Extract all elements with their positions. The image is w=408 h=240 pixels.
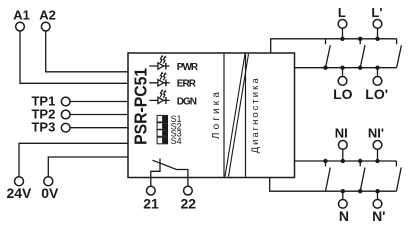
svg-text:PSR-PC51: PSR-PC51 <box>131 68 151 145</box>
terminal 22 <box>184 186 193 195</box>
contact K2c <box>396 161 401 191</box>
svg-text:NI': NI' <box>368 126 384 141</box>
LED PWR <box>149 55 169 70</box>
divider logic column <box>223 54 225 177</box>
svg-text:N': N' <box>372 208 385 224</box>
junction dots LO bus <box>323 66 327 70</box>
wire TP3 <box>70 127 128 129</box>
svg-text:Диагностика: Диагностика <box>250 76 261 153</box>
wire NI stub <box>342 149 344 161</box>
terminal N' <box>373 199 382 208</box>
terminal 24V <box>15 177 24 186</box>
contact K2a <box>326 161 331 191</box>
svg-text:LO: LO <box>333 86 353 102</box>
wire LO stub <box>342 68 344 77</box>
terminal 0V <box>44 177 53 186</box>
LED DGN <box>149 89 169 104</box>
svg-text:0V: 0V <box>41 185 59 201</box>
switch S1 <box>157 115 167 122</box>
svg-text:ERR: ERR <box>177 79 197 90</box>
svg-text:22: 22 <box>181 195 197 211</box>
wire N stub <box>342 191 344 199</box>
junction dots NI bus <box>323 159 327 163</box>
junction dots N bus <box>341 189 345 193</box>
switch S2 <box>157 123 167 130</box>
contact K1a <box>326 39 331 68</box>
wire L bus top <box>271 39 397 53</box>
switch S4 <box>157 137 167 144</box>
terminal 21 <box>146 186 155 195</box>
wire 0V to module <box>48 157 128 177</box>
svg-text:A1: A1 <box>13 8 30 23</box>
wire N' stub <box>377 191 379 199</box>
svg-text:Логика: Логика <box>211 89 222 139</box>
svg-text:NI: NI <box>335 126 348 141</box>
contact K2b <box>360 161 365 191</box>
contact K1c <box>397 39 402 68</box>
contact K1b <box>360 39 365 68</box>
svg-text:24V: 24V <box>6 185 32 201</box>
wire TP1 <box>70 101 128 103</box>
relay output contact 21-22 <box>151 159 188 187</box>
wire 24V to module <box>19 143 128 176</box>
terminal N <box>338 199 347 208</box>
LED ERR <box>149 71 169 86</box>
wire A2 to module <box>46 31 128 72</box>
svg-text:S4: S4 <box>171 136 182 146</box>
wire L' stub <box>377 28 379 39</box>
wire LO' stub <box>377 68 379 77</box>
wire TP2 <box>70 114 128 116</box>
divider diagnostics column <box>245 54 247 177</box>
wire NI' stub <box>377 149 379 161</box>
junction dots L bus <box>340 37 344 41</box>
wire NI bus <box>295 160 397 162</box>
svg-text:L: L <box>338 5 346 20</box>
wire L stub <box>342 28 344 39</box>
svg-text:PWR: PWR <box>177 62 199 73</box>
wire A1 to module <box>20 31 128 83</box>
isolation barrier diagonal 2 <box>229 54 249 177</box>
wire LO bus <box>295 67 397 69</box>
switch S3 <box>157 130 167 137</box>
svg-text:A2: A2 <box>39 8 56 23</box>
module box U1 PSR-PC51 <box>128 53 295 178</box>
svg-text:L': L' <box>371 5 382 20</box>
svg-text:21: 21 <box>143 195 159 211</box>
terminal LO' <box>373 77 382 86</box>
svg-text:LO': LO' <box>365 86 388 102</box>
wire N bus <box>270 178 397 192</box>
terminal LO <box>338 77 347 86</box>
svg-text:DGN: DGN <box>177 96 197 107</box>
svg-text:N: N <box>339 208 349 224</box>
svg-text:TP3: TP3 <box>31 120 55 135</box>
isolation barrier diagonal 1 <box>225 54 245 177</box>
